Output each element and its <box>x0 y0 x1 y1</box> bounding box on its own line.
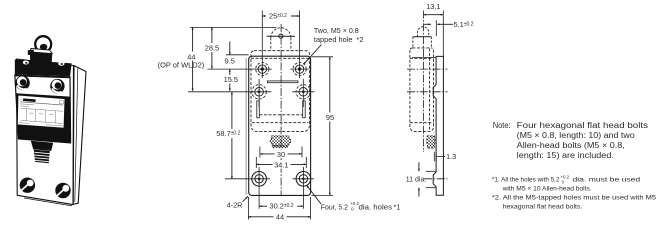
mounting hole bottom-left <box>252 167 267 192</box>
dim 13.1 extension right <box>442 11 444 57</box>
svg-text:*2. All the M5-tapped holes mu: *2. All the M5-tapped holes must be used… <box>492 195 656 202</box>
dim 25±0.2 <box>262 11 299 20</box>
dim 1.3 line <box>436 155 445 157</box>
dim 30.2 extension lines <box>258 192 260 209</box>
lever arm <box>28 50 34 55</box>
body front face <box>15 75 71 144</box>
svg-text:1.3: 1.3 <box>446 152 456 161</box>
svg-text:hexagonal flat head bolts.: hexagonal flat head bolts. <box>503 203 583 210</box>
svg-text:*2: *2 <box>357 35 364 44</box>
dim 5.1 left arrow <box>424 23 431 25</box>
row D hole left (5.2 dia) <box>252 79 266 107</box>
dim 95 extension bottom <box>312 194 334 196</box>
dim 15.5 (also 9.5 lower arrow) <box>229 69 231 91</box>
bracket block <box>30 52 52 63</box>
tapped hole right centerline <box>299 11 301 79</box>
dim 58.7±0.2 <box>217 92 237 179</box>
roller <box>35 36 51 52</box>
front screw left <box>15 76 29 90</box>
svg-text:0: 0 <box>562 179 565 184</box>
dim 5.1 plane tick <box>435 20 437 36</box>
svg-text:13.1: 13.1 <box>426 2 440 11</box>
top face screw right <box>58 61 64 65</box>
label <box>17 95 65 128</box>
mounting plate (side) with bosses <box>433 56 443 195</box>
svg-text:11 dia.: 11 dia. <box>406 175 427 184</box>
plate side inner edge <box>75 68 78 202</box>
extension line top (roller top) <box>190 26 277 28</box>
svg-text:with M5 × 10 Allen-head bolts.: with M5 × 10 Allen-head bolts. <box>502 186 592 193</box>
dim 44 bottom <box>248 212 310 221</box>
plunger cap hidden sides <box>413 37 431 48</box>
dim 11 dia. arrows <box>418 162 420 171</box>
plate side face <box>73 66 86 205</box>
tapped hole left centerline <box>261 11 263 79</box>
dim 1.3 ticks <box>433 152 435 162</box>
plate top step line <box>412 57 436 59</box>
svg-text:15.5: 15.5 <box>224 75 238 84</box>
svg-text:*1: *1 <box>394 202 401 211</box>
dim 95 <box>325 57 336 196</box>
leader Two M5 tapped <box>304 45 322 65</box>
leader Four 5.2 holes <box>307 185 321 204</box>
plate hole left <box>20 178 35 193</box>
row D hole right (5.2 dia) <box>296 79 310 107</box>
body seam hidden line <box>251 57 309 59</box>
row C centerline (side) <box>407 68 448 70</box>
svg-text:Four hexagonal flat head bolts: Four hexagonal flat head bolts <box>517 121 648 130</box>
svg-text:tapped hole: tapped hole <box>314 35 353 44</box>
svg-text:Two, M5 × 0.8: Two, M5 × 0.8 <box>314 26 359 35</box>
plate front face <box>17 59 74 205</box>
connector front (hatched) <box>270 136 290 148</box>
inner hidden vertical (side) <box>429 49 431 132</box>
dim 11 dia. lines <box>426 170 436 172</box>
tapped hole M5 right <box>293 63 306 76</box>
tapped hole M5 left <box>256 63 269 76</box>
hidden line lower body <box>252 122 308 124</box>
dim 13.1 <box>424 14 444 16</box>
mounting hole bottom-right <box>296 167 311 192</box>
vertical centerline <box>280 24 282 196</box>
text 30.2±0.2 <box>267 201 297 211</box>
connector nut <box>31 141 53 151</box>
free-position line <box>267 35 295 37</box>
svg-text:0: 0 <box>351 207 354 212</box>
plate hole right <box>55 183 70 198</box>
hidden line between slots <box>259 114 302 116</box>
dim 5.1 right arrow <box>437 23 453 25</box>
label OMRON bar <box>23 98 36 102</box>
top face screw left <box>23 61 29 65</box>
svg-text:Note:: Note: <box>493 121 511 130</box>
svg-text:length: 15) are included.: length: 15) are included. <box>517 151 614 160</box>
dim 30 <box>260 150 302 159</box>
svg-text:(M5 × 0.8, length: 10) and two: (M5 × 0.8, length: 10) and two <box>517 131 636 140</box>
plate bottom thickness line <box>24 198 72 206</box>
svg-text:Allen-head bolts (M5 × 0.8,: Allen-head bolts (M5 × 0.8, <box>517 141 625 150</box>
svg-text:dia. must be used: dia. must be used <box>573 177 641 184</box>
dim 34.1 <box>256 160 306 169</box>
extension line plate top left <box>226 54 249 56</box>
svg-text:5.1±0.2: 5.1±0.2 <box>454 20 474 29</box>
dim 30.2±0.2 <box>259 205 303 207</box>
side centerline <box>423 11 425 153</box>
text 15.5 <box>223 75 240 84</box>
body side edges <box>15 75 71 144</box>
roller hidden outline (side) <box>417 27 428 37</box>
plunger cap top line <box>413 36 431 38</box>
svg-text:4-2R: 4-2R <box>227 201 243 210</box>
row E centerline (side) <box>424 178 448 180</box>
row D horizontal centerline <box>188 91 271 93</box>
dim 34.1 extension lines <box>255 157 257 168</box>
svg-text:34.1: 34.1 <box>274 160 288 169</box>
right vertical slot <box>303 101 306 118</box>
svg-text:44: 44 <box>276 213 284 222</box>
switch body hidden outline <box>251 51 309 132</box>
svg-text:(OP of WLD2): (OP of WLD2) <box>158 60 205 69</box>
dim 30 extension lines <box>259 147 261 158</box>
connector threads <box>34 150 50 164</box>
body seam hidden (side) <box>410 57 434 59</box>
dim 95 extension top <box>312 56 334 58</box>
label detail lines <box>19 100 64 126</box>
leader 4-2R <box>243 196 249 202</box>
tapped hole row horizontal line <box>208 68 272 70</box>
body top face <box>15 59 72 76</box>
svg-text:28.5: 28.5 <box>205 44 219 53</box>
body hidden outline (side) <box>410 48 434 132</box>
row E horizontal centerline <box>225 178 270 180</box>
mounting plate outline <box>249 56 311 195</box>
left vertical slot <box>257 101 260 118</box>
slot bar <box>267 81 298 83</box>
connector (side, hatched) <box>427 136 435 148</box>
svg-text:Four, 5.2: Four, 5.2 <box>321 202 348 211</box>
body screw band (white) <box>15 76 70 96</box>
dim 44 bottom extension lines <box>247 197 249 220</box>
hidden line lower body (side) <box>410 122 434 124</box>
roller dome hidden arc <box>271 28 291 38</box>
plunger center circle <box>279 34 283 38</box>
dim 44 OP <box>186 27 198 91</box>
svg-text:30: 30 <box>277 150 285 159</box>
svg-text:9.5: 9.5 <box>225 57 235 66</box>
svg-text:95: 95 <box>326 113 334 122</box>
gray shading left of plate <box>245 58 247 195</box>
front screw right <box>50 79 64 93</box>
bracket top face <box>30 49 52 54</box>
dim 28.5 <box>204 27 221 69</box>
svg-text:dia. holes: dia. holes <box>359 202 393 211</box>
dim 9.5 outside arrow above <box>229 42 231 55</box>
plunger bushing hidden lines <box>271 38 291 51</box>
svg-text:*1. All the holes with 5.2: *1. All the holes with 5.2 <box>492 177 560 184</box>
row D centerline (side) <box>407 91 448 93</box>
